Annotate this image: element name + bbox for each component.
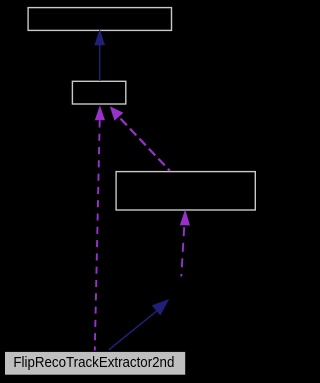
node: intermediate class box (middle small, label not visible) [72,81,125,104]
edge: dashed usage arrow (short, below right box) [180,209,190,276]
edge: dashed usage arrow right box -> middle box (diagonal) [110,106,170,170]
node: base class box (top, label not visible) [28,8,171,31]
node: FlipRecoTrackExtractor2nd (current class, grey filled) [5,351,186,375]
node: used class box (right, two-line label not visible) [116,172,255,210]
svg-text:FlipRecoTrackExtractor2nd: FlipRecoTrackExtractor2nd [13,355,174,371]
edge: dashed usage arrow bottom box -> middle box (vertical) [95,105,105,350]
edge: solid inheritance arrow bottom box -> (invisible template node) diagonal [109,299,170,350]
edge: solid inheritance arrow middle box -> top box [94,29,105,81]
